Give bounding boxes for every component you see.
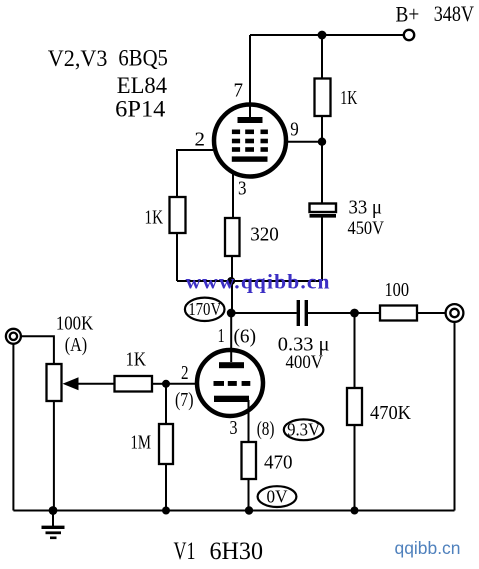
- svg-text:9: 9: [290, 118, 299, 140]
- svg-text:320: 320: [250, 224, 279, 246]
- svg-text:(8): (8): [257, 418, 275, 440]
- svg-text:1K: 1K: [145, 207, 164, 229]
- svg-text:9.3V: 9.3V: [287, 420, 320, 440]
- svg-text:(A): (A): [65, 334, 87, 356]
- svg-text:V2,V3: V2,V3: [48, 46, 108, 72]
- svg-text:(6): (6): [234, 326, 257, 348]
- svg-text:400V: 400V: [286, 353, 324, 373]
- svg-text:EL84: EL84: [117, 73, 167, 99]
- svg-text:470: 470: [264, 452, 293, 474]
- svg-text:2: 2: [195, 128, 206, 150]
- svg-text:1: 1: [218, 325, 225, 347]
- svg-text:1M: 1M: [131, 432, 152, 454]
- svg-text:V1: V1: [174, 538, 196, 565]
- svg-text:qqibb.cn: qqibb.cn: [395, 538, 461, 558]
- svg-text:470K: 470K: [370, 402, 412, 424]
- svg-text:B+: B+: [396, 2, 420, 27]
- svg-text:6BQ5: 6BQ5: [118, 46, 167, 72]
- svg-text:0V: 0V: [267, 487, 288, 507]
- svg-text:33 μ: 33 μ: [349, 197, 383, 219]
- svg-text:3: 3: [238, 178, 247, 200]
- svg-text:6H30: 6H30: [210, 538, 264, 565]
- svg-text:100K: 100K: [56, 313, 94, 335]
- svg-text:450V: 450V: [348, 219, 385, 239]
- svg-text:348V: 348V: [434, 1, 474, 26]
- svg-text:www.qqibb.cn: www.qqibb.cn: [186, 270, 330, 294]
- svg-text:1K: 1K: [126, 349, 147, 371]
- svg-text:100: 100: [385, 279, 410, 301]
- svg-text:3: 3: [230, 417, 238, 439]
- svg-text:2: 2: [181, 362, 189, 384]
- svg-text:7: 7: [234, 80, 244, 102]
- svg-text:170V: 170V: [188, 299, 221, 319]
- svg-text:6P14: 6P14: [115, 97, 165, 123]
- svg-text:1K: 1K: [340, 87, 357, 109]
- svg-text:(7): (7): [175, 389, 194, 411]
